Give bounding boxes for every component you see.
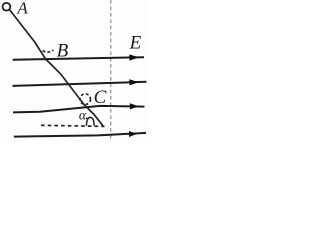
svg-text:E: E [129,32,142,53]
svg-text:A: A [16,0,28,18]
svg-text:B: B [57,41,69,62]
svg-text:C: C [94,87,107,108]
svg-text:α: α [79,107,87,122]
